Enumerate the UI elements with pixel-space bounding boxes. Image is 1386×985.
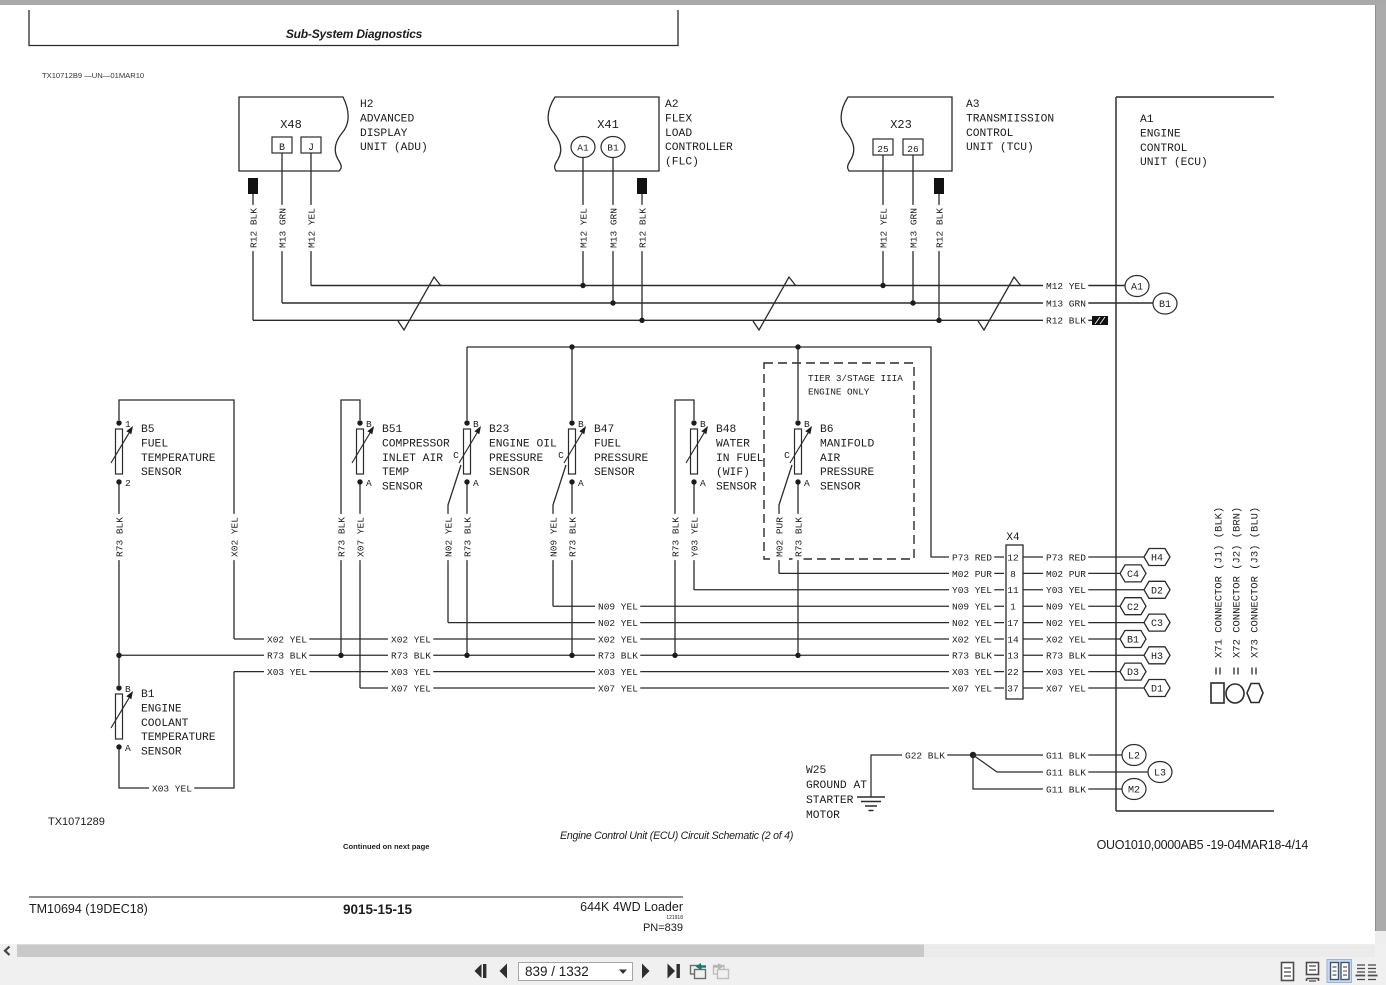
ECU pin B1 (1120, 631, 1146, 648)
wire G11 BLK to L2 (973, 754, 1122, 756)
ECU pin A1 (1125, 276, 1149, 297)
wire B1 pinB to R73 node (118, 655, 120, 685)
wire B47 pinB to P73 (571, 349, 573, 420)
svg-text:C: C (558, 450, 564, 461)
svg-text:N02 YEL: N02 YEL (1046, 618, 1086, 629)
label N09 YEL at X4 left (949, 601, 994, 612)
wire B48 pinA Y03 YEL (693, 484, 695, 590)
svg-text:1: 1 (1010, 602, 1016, 613)
svg-text:B: B (700, 419, 706, 430)
X48 pin B (272, 137, 292, 153)
svg-text:X71 CONNECTOR (J1) (BLK): X71 CONNECTOR (J1) (BLK) (1213, 507, 1225, 658)
svg-text:X48: X48 (280, 118, 302, 132)
svg-text:H4: H4 (1151, 554, 1163, 565)
svg-text:FUEL: FUEL (594, 438, 621, 450)
svg-text:C: C (784, 450, 790, 461)
label X07 YEL at X4 left (949, 683, 994, 694)
sensor B51 compressor inlet air temp (352, 419, 450, 494)
svg-text:B1: B1 (1127, 636, 1139, 647)
svg-text:22: 22 (1007, 667, 1019, 678)
svg-text:A1: A1 (1140, 114, 1154, 126)
A1 ECU component label (1140, 114, 1208, 169)
sensor B5 fuel temperature (111, 419, 216, 489)
svg-text:G11 BLK: G11 BLK (1046, 767, 1086, 778)
svg-text:TIER 3/STAGE IIIA: TIER 3/STAGE IIIA (808, 373, 903, 384)
title box: Sub-System Diagnostics (28, 10, 678, 46)
wire B6 pinB to P73 (797, 349, 799, 420)
horizontal scrollbar thumb (17, 945, 924, 958)
node M13/X23 junction (910, 300, 915, 305)
svg-text:A1: A1 (577, 143, 589, 154)
svg-text:13: 13 (1007, 651, 1019, 662)
harness crossing mark 1 (398, 277, 441, 330)
svg-text:GROUND AT: GROUND AT (806, 780, 867, 792)
wire row X07 YEL to X4 (360, 687, 1004, 689)
svg-text:MANIFOLD: MANIFOLD (820, 438, 874, 450)
svg-text:M12 YEL: M12 YEL (306, 208, 317, 248)
svg-text:DISPLAY: DISPLAY (360, 128, 408, 140)
node R73 bus junctions (116, 653, 121, 658)
wire M12 YEL from X23 pin 25 (882, 155, 884, 286)
wire B5 pin2 R73 BLK (118, 484, 120, 655)
svg-text:X72 CONNECTOR (J2) (BRN): X72 CONNECTOR (J2) (BRN) (1231, 507, 1243, 658)
svg-text:G11 BLK: G11 BLK (1046, 784, 1086, 795)
connector X23 (TCU) body (841, 97, 952, 171)
sensor B48 water in fuel (686, 419, 764, 494)
node P73/B6 junction (795, 344, 800, 349)
svg-text:R73 BLK: R73 BLK (598, 651, 638, 662)
wire row M02 PUR to X4 (779, 572, 1004, 574)
svg-text:M13 GRN: M13 GRN (608, 208, 619, 248)
scrollbar/toolbar background (0, 944, 1386, 985)
svg-text:M12 YEL: M12 YEL (1046, 281, 1086, 292)
dashed box TIER 3/STAGE IIIA ENGINE ONLY (764, 363, 914, 559)
svg-text:M12 YEL: M12 YEL (878, 208, 889, 248)
harness crossing mark 3 (978, 277, 1021, 330)
page number box (519, 963, 633, 981)
ECU pin D2 (1144, 581, 1170, 598)
wire X02 YEL X4 to ECU pin B1 (1023, 638, 1120, 640)
wire G22 BLK (871, 755, 973, 797)
svg-text:Y03 YEL: Y03 YEL (689, 517, 700, 557)
R12 BLK shield terminator (1092, 316, 1108, 325)
svg-text:N02 YEL: N02 YEL (443, 517, 454, 557)
svg-text:SENSOR: SENSOR (141, 467, 182, 479)
wire M13 GRN from X23 pin 26 (912, 155, 914, 303)
node R12/X23 junction (936, 318, 941, 323)
legend X73 connector (J3)(BLU) (1247, 507, 1263, 703)
svg-text:P73 RED: P73 RED (1046, 552, 1086, 563)
svg-text:R12 BLK: R12 BLK (934, 208, 945, 248)
svg-text:N02 YEL: N02 YEL (952, 618, 992, 629)
op ECU A1 box outline (1116, 97, 1274, 811)
svg-text:R73 BLK: R73 BLK (336, 517, 347, 557)
svg-text:TEMP: TEMP (382, 467, 409, 479)
svg-text:R73 BLK: R73 BLK (114, 517, 125, 557)
svg-text:W25: W25 (806, 765, 827, 777)
sensor B1 engine coolant temperature (111, 684, 216, 759)
X23 pin 25 (873, 139, 893, 155)
continuous scroll layout icon (1307, 963, 1319, 982)
svg-text:ENGINE: ENGINE (1140, 128, 1181, 140)
svg-text:A1: A1 (1131, 283, 1143, 294)
svg-text:(WIF): (WIF) (716, 467, 750, 479)
top window edge bar (0, 0, 1386, 5)
wire row Y03 YEL to X4 (694, 589, 1004, 591)
first page button (475, 964, 487, 978)
svg-text:A2: A2 (665, 99, 679, 111)
svg-text:644K 4WD Loader: 644K 4WD Loader (580, 900, 683, 914)
svg-text:X02 YEL: X02 YEL (391, 634, 431, 645)
wire M13 GRN from X48 pin B (281, 153, 283, 303)
svg-text:26: 26 (907, 144, 919, 155)
svg-text:Continued on next page: Continued on next page (343, 842, 429, 851)
svg-text:M12 YEL: M12 YEL (578, 208, 589, 248)
svg-text:1: 1 (125, 419, 131, 430)
node M13/X41 junction (610, 300, 615, 305)
label X03 YEL at X4 left (949, 666, 994, 677)
svg-text:A3: A3 (966, 99, 980, 111)
svg-text:UNIT (ECU): UNIT (ECU) (1140, 157, 1208, 169)
svg-text:X03 YEL: X03 YEL (952, 667, 992, 678)
wire N02 YEL X4 to ECU pin C3 (1023, 622, 1144, 624)
svg-text:PRESSURE: PRESSURE (820, 467, 874, 479)
svg-text:25: 25 (877, 144, 889, 155)
svg-text:9015-15-15: 9015-15-15 (343, 902, 413, 917)
svg-text:X02 YEL: X02 YEL (598, 634, 638, 645)
svg-text:B23: B23 (489, 424, 510, 436)
node G22/G11 junction (970, 752, 976, 758)
svg-text:OUO1010,0000AB5 -19-04MAR18-4/: OUO1010,0000AB5 -19-04MAR18-4/14 (1097, 838, 1309, 852)
wire B6 pinC M02 PUR (779, 465, 792, 574)
wire M12 YEL from X48 pin J (310, 153, 312, 286)
svg-text:M13 GRN: M13 GRN (1046, 298, 1086, 309)
svg-text:TEMPERATURE: TEMPERATURE (141, 453, 216, 465)
wire row R73 BLK to X4 (119, 654, 1004, 656)
wire B47 pinC N09 YEL (553, 465, 566, 606)
ECU pin H3 (1144, 647, 1170, 664)
X41 pin A1 (571, 137, 595, 158)
wire R12 BLK from X41 splice (641, 194, 643, 320)
legend X72 connector (J2)(BRN) (1226, 507, 1244, 703)
wire R73 BLK X4 to ECU pin H3 (1023, 654, 1144, 656)
ECU pin H4 (1144, 549, 1170, 566)
two page layout icon (active) (1327, 960, 1352, 983)
svg-text:CONTROL: CONTROL (1140, 143, 1188, 155)
connector X4 (1006, 532, 1023, 699)
svg-text:J: J (308, 143, 314, 154)
svg-text:121918: 121918 (666, 915, 683, 921)
svg-text:(FLC): (FLC) (665, 157, 699, 169)
svg-text:Y03 YEL: Y03 YEL (952, 585, 992, 596)
wire X07 YEL X4 to ECU pin D1 (1023, 687, 1144, 689)
svg-text:X07 YEL: X07 YEL (598, 683, 638, 694)
ECU pin C3 (1144, 614, 1170, 631)
svg-text:X4: X4 (1006, 532, 1020, 544)
svg-text:H3: H3 (1151, 652, 1163, 663)
svg-text:TRANSMIISSION: TRANSMIISSION (966, 113, 1054, 125)
svg-text:C3: C3 (1151, 619, 1163, 630)
svg-text:FLEX: FLEX (665, 113, 692, 125)
svg-text:SENSOR: SENSOR (489, 467, 530, 479)
svg-text:2: 2 (125, 478, 131, 489)
X23 pin 26 (903, 139, 923, 155)
connector X41 (FLC) body (548, 97, 659, 171)
svg-text:A: A (578, 478, 584, 489)
svg-text:B1: B1 (1159, 300, 1171, 311)
svg-text:A: A (125, 743, 131, 754)
svg-text:M2: M2 (1128, 786, 1140, 797)
svg-text:R12 BLK: R12 BLK (248, 208, 259, 248)
svg-text:ENGINE OIL: ENGINE OIL (489, 438, 557, 450)
svg-text:B1: B1 (607, 143, 619, 154)
svg-text:B: B (279, 143, 285, 154)
svg-text:A: A (366, 478, 372, 489)
svg-text:UNIT (TCU): UNIT (TCU) (966, 142, 1034, 154)
wire B47 pinA R73 BLK (571, 484, 573, 655)
svg-text:N09 YEL: N09 YEL (952, 602, 992, 613)
svg-text:COOLANT: COOLANT (141, 718, 189, 730)
wire P73 RED supply net (467, 347, 1004, 557)
svg-text:SENSOR: SENSOR (141, 747, 182, 759)
bus label M13 GRN (1043, 298, 1088, 309)
bus wire R12 BLK (253, 319, 1093, 321)
label N02 YEL at X4 left (949, 617, 994, 628)
bus wire M12 YEL (311, 285, 1125, 287)
svg-text:M02 PUR: M02 PUR (952, 569, 992, 580)
wire B6 pinA R73 BLK (797, 484, 799, 655)
wire P73 RED X4 to ECU pin H4 (1023, 556, 1144, 558)
svg-text:C4: C4 (1127, 570, 1139, 581)
svg-text:12: 12 (1007, 552, 1019, 563)
svg-text:P73 RED: P73 RED (952, 552, 992, 563)
svg-text:B51: B51 (382, 424, 403, 436)
ECU pin C2 (1120, 598, 1146, 615)
splice R12 BLK below X48 (248, 178, 258, 194)
svg-text:CONTROLLER: CONTROLLER (665, 142, 733, 154)
svg-text:Engine Control Unit (ECU) Circ: Engine Control Unit (ECU) Circuit Schema… (560, 830, 793, 842)
svg-text:C2: C2 (1127, 603, 1139, 614)
ECU pin B1 (1153, 293, 1177, 314)
svg-text:X07 YEL: X07 YEL (391, 683, 431, 694)
label R73 BLK at X4 left (949, 650, 994, 661)
svg-text:N09 YEL: N09 YEL (598, 602, 638, 613)
svg-text:X03 YEL: X03 YEL (598, 667, 638, 678)
svg-text:ENGINE: ENGINE (141, 703, 182, 715)
label M02 PUR at X4 left (949, 568, 994, 579)
scrollbar left arrow (5, 947, 10, 956)
wire M12 YEL from X41 pin A1 (582, 158, 584, 286)
svg-text:SENSOR: SENSOR (716, 482, 757, 494)
node R12/X41 junction (639, 318, 644, 323)
wire R12 BLK from X48 splice (252, 194, 254, 320)
svg-text:B47: B47 (594, 424, 614, 436)
svg-text:L2: L2 (1128, 752, 1140, 763)
svg-text:R73 BLK: R73 BLK (793, 517, 804, 557)
label Y03 YEL at X4 left (949, 584, 994, 595)
svg-text:M02 PUR: M02 PUR (774, 517, 785, 557)
wire row X03 YEL to X4 (234, 671, 1004, 673)
svg-text:IN FUEL: IN FUEL (716, 453, 764, 465)
previous page button (500, 964, 508, 979)
wire B5 pin1 to X02 YEL (119, 400, 234, 639)
bus label R12 BLK (1043, 315, 1088, 326)
svg-text:X07 YEL: X07 YEL (952, 683, 992, 694)
splice R12 BLK below X23 (934, 178, 944, 194)
bus wire M13 GRN (282, 302, 1153, 304)
svg-text:A: A (700, 478, 706, 489)
sensor B23 engine oil pressure (459, 419, 557, 489)
wire G11 BLK to L3 (973, 755, 1148, 772)
wire M02 PUR X4 to ECU pin C4 (1023, 572, 1120, 574)
svg-text:X23: X23 (890, 118, 912, 132)
next page button (642, 964, 650, 979)
svg-text:MOTOR: MOTOR (806, 810, 840, 822)
svg-text:M02 PUR: M02 PUR (1046, 569, 1086, 580)
wire N09 YEL X4 to ECU pin C2 (1023, 605, 1120, 607)
ECU pin L3 (1148, 762, 1172, 783)
last page button (668, 964, 680, 979)
svg-text:11: 11 (1007, 585, 1019, 596)
svg-text:N02 YEL: N02 YEL (598, 618, 638, 629)
svg-text:A: A (804, 478, 810, 489)
svg-text:X02 YEL: X02 YEL (267, 634, 307, 645)
previous view button (691, 963, 707, 979)
svg-text:X03 YEL: X03 YEL (267, 667, 307, 678)
svg-text:R12 BLK: R12 BLK (637, 208, 648, 248)
wire row N09 YEL to X4 (553, 605, 1004, 607)
svg-text:D3: D3 (1127, 668, 1139, 679)
svg-text:X07 YEL: X07 YEL (355, 517, 366, 557)
svg-text:PRESSURE: PRESSURE (594, 453, 648, 465)
svg-text:SENSOR: SENSOR (820, 482, 861, 494)
wire R12 BLK from X23 splice (938, 194, 940, 320)
svg-text:X02 YEL: X02 YEL (952, 634, 992, 645)
svg-text:WATER: WATER (716, 438, 750, 450)
wire Y03 YEL X4 to ECU pin D2 (1023, 589, 1144, 591)
svg-text:PN=839: PN=839 (643, 922, 683, 934)
svg-text:Sub-System Diagnostics: Sub-System Diagnostics (286, 27, 423, 41)
svg-text:R73 BLK: R73 BLK (670, 517, 681, 557)
svg-text:A: A (473, 478, 479, 489)
two page continuous layout icon (1356, 962, 1378, 981)
svg-text:17: 17 (1007, 618, 1018, 629)
wire X03 YEL X4 to ECU pin D3 (1023, 671, 1120, 673)
svg-text:R73 BLK: R73 BLK (567, 517, 578, 557)
svg-text:839 / 1332: 839 / 1332 (525, 964, 589, 979)
node M12/X23 junction (880, 283, 885, 288)
horizontal scrollbar track (17, 945, 1375, 958)
svg-text:B1: B1 (141, 689, 155, 701)
svg-text:AIR: AIR (820, 453, 841, 465)
svg-text:B: B (125, 684, 131, 695)
wire B23 pinC N02 YEL (448, 465, 461, 623)
svg-text:G22 BLK: G22 BLK (905, 750, 945, 761)
svg-text:37: 37 (1007, 683, 1018, 694)
connector X48 (ADU) body (239, 97, 348, 171)
svg-text:14: 14 (1007, 634, 1019, 645)
svg-text:STARTER: STARTER (806, 795, 854, 807)
svg-text:H2: H2 (360, 99, 374, 111)
svg-text:8: 8 (1010, 569, 1016, 580)
svg-text:R73 BLK: R73 BLK (267, 651, 307, 662)
svg-text:X03 YEL: X03 YEL (1046, 667, 1086, 678)
label X03 YEL at B1 loop (149, 783, 194, 794)
wire B51 pinA X07 YEL (359, 484, 361, 688)
footer rule (29, 896, 683, 898)
svg-text:X41: X41 (597, 118, 619, 132)
next view button (disabled) (713, 963, 729, 979)
ECU pin D3 (1120, 663, 1146, 680)
svg-text:B: B (473, 419, 479, 430)
svg-text:PRESSURE: PRESSURE (489, 453, 543, 465)
svg-text:D1: D1 (1151, 685, 1163, 696)
svg-text:X02 YEL: X02 YEL (1046, 634, 1086, 645)
svg-text:TX10712B9 —UN—01MAR10: TX10712B9 —UN—01MAR10 (42, 71, 144, 80)
ECU pin C4 (1120, 565, 1146, 582)
svg-text:G11 BLK: G11 BLK (1046, 750, 1086, 761)
ECU pin M2 (1122, 779, 1146, 800)
ECU pin L2 (1122, 745, 1146, 766)
svg-text:B5: B5 (141, 424, 155, 436)
svg-text:R73 BLK: R73 BLK (391, 651, 431, 662)
harness crossing mark 2 (753, 277, 796, 330)
ground symbol W25 (857, 797, 885, 811)
svg-text:UNIT (ADU): UNIT (ADU) (360, 142, 428, 154)
svg-text:X03 YEL: X03 YEL (391, 667, 431, 678)
svg-text:B: B (804, 419, 810, 430)
single page layout icon (1282, 963, 1294, 981)
svg-text:SENSOR: SENSOR (594, 467, 635, 479)
svg-text:TM10694 (19DEC18): TM10694 (19DEC18) (29, 902, 148, 916)
legend X71 connector (J1)(BLK) (1211, 507, 1225, 703)
wire row N02 YEL to X4 (448, 622, 1004, 624)
svg-text:INLET AIR: INLET AIR (382, 453, 443, 465)
splice R12 BLK below X41 (637, 178, 647, 194)
wire B1 pinA X03 YEL loop (119, 672, 234, 788)
sensor B6 manifold air pressure (790, 419, 874, 494)
node M12/X41 junction (580, 283, 585, 288)
svg-text:X03 YEL: X03 YEL (152, 783, 192, 794)
svg-text:R73 BLK: R73 BLK (462, 517, 473, 557)
H2 ADU component label (360, 99, 428, 154)
svg-text:M13 GRN: M13 GRN (908, 208, 919, 248)
svg-text:CONTROL: CONTROL (966, 128, 1014, 140)
svg-text:C: C (453, 450, 459, 461)
W25 ground label (806, 765, 867, 822)
wire M13 GRN from X41 pin B1 (612, 158, 614, 304)
node P73/B47 junction (569, 344, 574, 349)
vertical scrollbar (1375, 5, 1376, 931)
wire G11 BLK to M2 (973, 755, 1122, 789)
svg-text:TEMPERATURE: TEMPERATURE (141, 732, 216, 744)
svg-text:COMPRESSOR: COMPRESSOR (382, 438, 450, 450)
svg-text:LOAD: LOAD (665, 128, 692, 140)
label X02 YEL at X4 left (949, 634, 994, 645)
svg-text:Y03 YEL: Y03 YEL (1046, 585, 1086, 596)
svg-text:R73 BLK: R73 BLK (1046, 651, 1086, 662)
bus label M12 YEL (1043, 280, 1088, 291)
ECU pin D1 (1144, 680, 1170, 697)
svg-text:B6: B6 (820, 424, 834, 436)
wire B23 pinB to P73 (466, 347, 468, 420)
wire row X02 YEL to X4 (234, 638, 1004, 640)
svg-text:X73 CONNECTOR (J3) (BLU): X73 CONNECTOR (J3) (BLU) (1249, 507, 1261, 658)
svg-text:B48: B48 (716, 424, 737, 436)
X41 pin B1 (601, 137, 625, 158)
svg-text:X02 YEL: X02 YEL (229, 517, 240, 557)
A3 TCU component label (966, 99, 1054, 154)
